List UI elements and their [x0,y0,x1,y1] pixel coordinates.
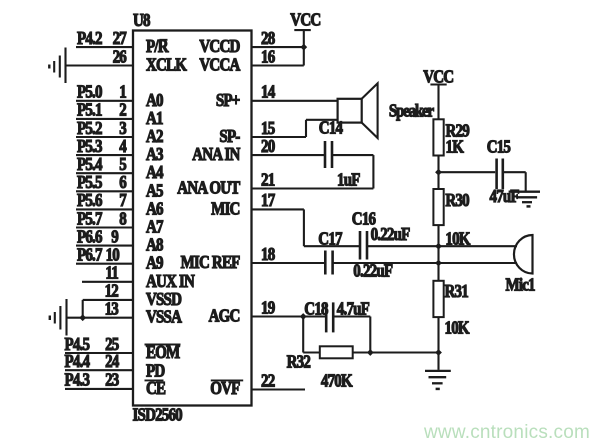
svg-text:C15: C15 [487,136,511,156]
svg-text:P4.4: P4.4 [65,351,90,371]
svg-text:0.22uF: 0.22uF [371,224,411,244]
svg-text:470K: 470K [321,370,353,390]
svg-text:MIC REF: MIC REF [181,252,241,272]
svg-text:R30: R30 [445,190,469,210]
svg-text:26: 26 [113,46,127,66]
svg-text:VCC: VCC [423,66,453,86]
svg-text:18: 18 [261,244,275,264]
svg-text:10K: 10K [445,317,470,337]
svg-text:C14: C14 [319,117,343,137]
svg-text:ISD2560: ISD2560 [133,404,183,424]
svg-text:14: 14 [261,81,275,101]
svg-text:8: 8 [119,208,126,228]
svg-text:R31: R31 [445,281,469,301]
svg-text:1uF: 1uF [337,169,360,189]
svg-text:21: 21 [261,169,275,189]
svg-text:ANA IN: ANA IN [192,144,240,164]
svg-text:19: 19 [261,297,275,317]
svg-text:www.cntronics.com: www.cntronics.com [423,422,590,443]
svg-text:R32: R32 [287,351,311,371]
svg-text:22: 22 [261,370,275,390]
svg-text:XCLK: XCLK [146,54,187,74]
svg-text:AGC: AGC [209,305,240,325]
svg-text:U8: U8 [133,10,150,30]
svg-text:SP+: SP+ [216,90,240,110]
svg-text:VCCA: VCCA [199,54,240,74]
svg-text:P4.2: P4.2 [77,28,102,48]
svg-text:C18: C18 [304,298,328,318]
svg-text:C17: C17 [318,229,342,249]
svg-text:24: 24 [105,351,119,371]
svg-text:ANA OUT: ANA OUT [177,177,240,197]
svg-text:1K: 1K [446,136,465,156]
svg-text:P4.3: P4.3 [65,370,90,390]
svg-text:23: 23 [105,370,119,390]
svg-text:Mic1: Mic1 [506,274,536,294]
svg-text:10K: 10K [445,228,470,248]
svg-text:P6.7: P6.7 [77,244,102,264]
svg-text:VCC: VCC [290,9,320,29]
svg-text:17: 17 [261,190,275,210]
svg-text:47uF: 47uF [490,186,520,206]
svg-text:16: 16 [261,46,275,66]
svg-text:20: 20 [261,136,275,156]
svg-text:4.7uF: 4.7uF [337,298,370,318]
svg-text:VSSA: VSSA [146,307,182,327]
svg-text:13: 13 [105,298,119,318]
svg-text:0.22uF: 0.22uF [353,260,393,280]
svg-text:Speaker: Speaker [389,100,434,120]
svg-text:MIC: MIC [211,198,239,218]
